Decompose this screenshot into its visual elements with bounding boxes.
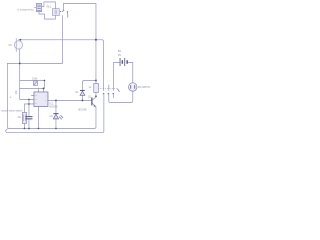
contact C2 lower stub — [108, 93, 110, 97]
wire IC output to base — [47, 99, 91, 101]
wire LED bottom to rail — [55, 119, 57, 128]
junction IC pin node C — [28, 103, 30, 105]
svg-text:NE555: NE555 — [49, 105, 58, 109]
contact C3 lower stub — [113, 93, 115, 97]
IC left pin stub A — [31, 94, 34, 96]
dashed linkage lower contacts — [98, 88, 118, 90]
wire top rail — [63, 3, 95, 39]
svg-text:10k: 10k — [15, 90, 18, 95]
wire supply column to R1 — [95, 40, 97, 84]
wire branch to contact C1 — [96, 40, 104, 91]
wire y88 horizontal — [20, 87, 44, 89]
contact C2 hook — [108, 92, 109, 95]
contact blade top-left relay — [66, 11, 69, 17]
junction mic-bottom node — [19, 63, 21, 65]
junction LED branch node — [55, 100, 57, 102]
LED D2 — [53, 114, 63, 120]
wire diode anode to base wire — [81, 96, 83, 101]
wire contact top terminal — [62, 3, 64, 10]
svg-text:DC MOTOR: DC MOTOR — [138, 86, 150, 89]
IC left pin wire B — [20, 98, 34, 100]
resistor R1 — [94, 83, 99, 92]
svg-text:BC548: BC548 — [78, 107, 86, 111]
IC top pin 1 — [37, 88, 39, 93]
wire C1 lower to outer rail — [6, 93, 104, 132]
IC U1 555 — [34, 92, 48, 107]
junction rail node 2 — [28, 128, 30, 130]
diode D1 — [80, 90, 85, 95]
relay coil RL1 — [52, 9, 59, 16]
wire connector-to-coil-top — [42, 2, 56, 9]
junction rail node 1 — [24, 128, 26, 130]
svg-text:sound noise switch: sound noise switch — [1, 110, 23, 113]
wire mic-bottom horizontal — [7, 62, 62, 64]
contact arrow tick TL — [63, 9, 64, 12]
junction node y88 — [43, 88, 45, 90]
wire contact bottom vertical — [61, 16, 63, 64]
svg-text:10u: 10u — [17, 117, 22, 119]
IC bottom pin to rail — [37, 106, 39, 128]
battery B1 — [120, 58, 127, 66]
linkage diagonal end — [117, 89, 119, 92]
wire R1 to collector node — [95, 92, 97, 97]
connector J1 striped box — [34, 3, 41, 11]
wire diode branch top — [82, 80, 96, 90]
junction node y80 — [44, 80, 46, 82]
transistor collector wire — [92, 97, 96, 100]
wire connector-bottom-to-coil-bottom — [39, 12, 56, 19]
wire x44 vertical — [43, 80, 45, 88]
junction rail node 4 — [55, 128, 57, 130]
capacitor C1 plates — [26, 117, 33, 119]
svg-text:1k: 1k — [9, 97, 12, 99]
contact C3 hook — [113, 92, 114, 95]
junction mic-top node — [20, 39, 22, 41]
wire ground loop left — [7, 63, 96, 128]
motor M2 — [129, 83, 137, 91]
junction supply node A — [95, 39, 97, 41]
wire battery right lead to motor — [128, 62, 133, 82]
contact C1 hook — [103, 92, 104, 95]
junction rail node 3 — [38, 128, 40, 130]
wire cap bottom to rail — [28, 119, 30, 128]
svg-text:e imagenesto: e imagenesto — [17, 7, 34, 11]
transistor emitter wire — [92, 103, 96, 107]
svg-text:9V: 9V — [118, 53, 121, 57]
svg-text:D2: D2 — [50, 115, 54, 118]
wire C2 box to rail — [23, 123, 25, 128]
wire battery left lead — [114, 62, 120, 90]
junction collector node — [95, 95, 97, 97]
junction diode branch node — [95, 80, 97, 82]
svg-text:M1: M1 — [8, 44, 12, 47]
junction IC pin node B — [28, 99, 30, 101]
wire x28.5 vertical to cap — [28, 99, 30, 116]
IC left pin wire C — [24, 103, 34, 105]
wire motor bottom loop — [109, 91, 133, 102]
svg-text:100k: 100k — [32, 78, 38, 81]
svg-text:D1: D1 — [75, 91, 79, 94]
svg-text:1k: 1k — [88, 86, 91, 89]
contact C2 top stub — [108, 85, 110, 91]
junction base wire node — [82, 100, 84, 102]
dashed linkage coil to contact — [60, 10, 63, 12]
wire LED branch top — [55, 100, 57, 113]
IC top pin 2 — [42, 88, 44, 92]
transistor Q1 BC548 — [92, 97, 96, 106]
preset R3 above IC — [33, 81, 37, 85]
svg-text:B1: B1 — [118, 49, 122, 53]
wire mic bottom vertical — [19, 49, 22, 99]
capacitor C2 box electrolytic — [22, 112, 26, 123]
wire y80 horizontal — [20, 79, 45, 81]
microphone M1 — [14, 38, 22, 52]
svg-text:RL1: RL1 — [46, 4, 52, 8]
wire mic-top horizontal — [18, 39, 96, 41]
wire C2 box column top — [23, 104, 25, 113]
